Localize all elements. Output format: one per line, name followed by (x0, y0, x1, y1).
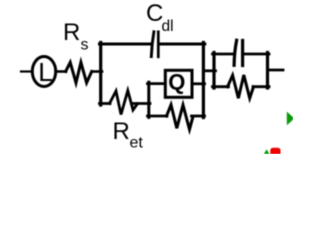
node: block1 left vertical (99, 43, 102, 106)
resistor Ret (110, 91, 138, 115)
wire block2 bottom left (213, 85, 229, 88)
wire sub-block bottom left (148, 115, 168, 118)
wire (92, 70, 102, 73)
marker: red blob bottom right (270, 148, 280, 156)
inductor L1 (32, 57, 55, 87)
wire sub-block bottom right (192, 115, 205, 118)
node: block1 right vertical (202, 43, 205, 118)
svg-text:L: L (38, 57, 52, 87)
wire bottom branch (100, 102, 111, 105)
capacitor Cdl (151, 32, 158, 57)
wire (56, 70, 66, 73)
wire from Q box (192, 82, 205, 85)
svg-text:et: et (130, 135, 144, 152)
svg-text:R: R (63, 19, 80, 46)
svg-text:s: s (81, 37, 89, 54)
wire (21, 70, 32, 72)
CPE Q1 box (165, 69, 192, 97)
wire output stub (268, 69, 284, 72)
wire to block2 (203, 69, 215, 72)
svg-text:dl: dl (162, 18, 174, 35)
svg-text:R: R (113, 118, 130, 145)
wire block2 top left (213, 53, 234, 56)
capacitor C2 (234, 40, 243, 65)
resistor Rs (66, 62, 92, 82)
marker: green triangle bottom (263, 149, 269, 155)
wire to Q box (148, 82, 167, 85)
node: sub-block left vertical (147, 82, 150, 117)
resistor R2 (parallel with Q) (167, 105, 194, 130)
marker: green play triangle right edge (287, 112, 295, 126)
wire block2 top right (244, 53, 269, 56)
wire (133, 102, 150, 105)
svg-text:Q: Q (168, 69, 185, 94)
wire block2 bottom right (253, 85, 269, 88)
node: block2 right vertical (266, 53, 269, 89)
node: block2 left vertical (212, 53, 215, 89)
wire top branch left (100, 43, 151, 46)
resistor R3 (228, 75, 254, 98)
wire top branch right (160, 43, 205, 46)
